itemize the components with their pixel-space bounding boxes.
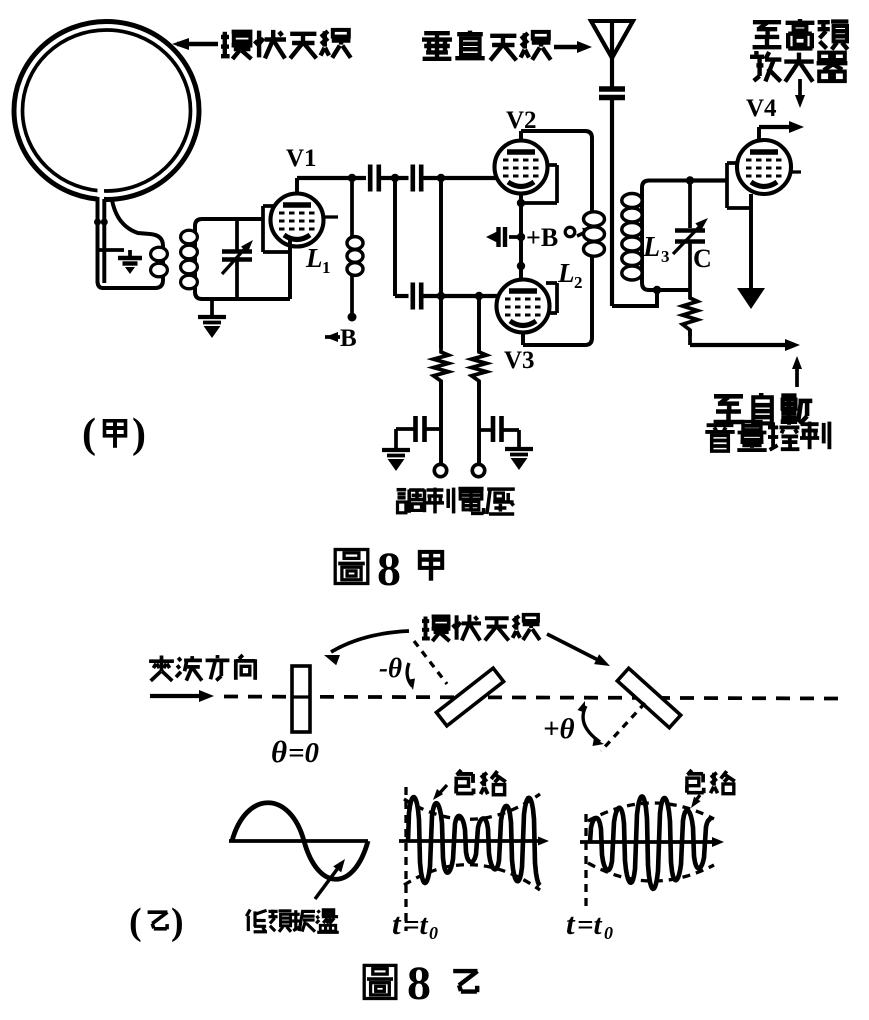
svg-text:L: L	[642, 232, 660, 263]
svg-text:-θ: -θ	[379, 653, 402, 683]
svg-text:V4: V4	[746, 95, 777, 122]
svg-text:L: L	[557, 258, 575, 288]
svg-text:+B: +B	[526, 223, 558, 252]
svg-text:0: 0	[429, 923, 438, 943]
svg-text:): )	[171, 901, 184, 943]
svg-text:=0: =0	[288, 737, 319, 769]
svg-text:8: 8	[407, 957, 431, 1010]
svg-text:L: L	[305, 243, 323, 273]
svg-text:V1: V1	[286, 145, 317, 172]
svg-text:3: 3	[661, 247, 670, 266]
svg-text:(: (	[129, 901, 142, 943]
svg-text:=t: =t	[577, 909, 603, 941]
svg-text:2: 2	[574, 273, 583, 292]
svg-text:): )	[132, 411, 146, 457]
svg-text:t: t	[566, 906, 576, 941]
svg-text:t: t	[392, 906, 402, 941]
svg-text:θ: θ	[271, 734, 287, 769]
svg-text:C: C	[693, 244, 712, 273]
svg-text:1: 1	[322, 258, 331, 277]
svg-text:0: 0	[604, 923, 613, 943]
svg-text:+θ: +θ	[543, 713, 575, 745]
svg-text:B: B	[340, 325, 357, 352]
svg-text:(: (	[82, 411, 96, 457]
svg-text:V3: V3	[504, 347, 535, 374]
svg-text:8: 8	[377, 543, 401, 596]
